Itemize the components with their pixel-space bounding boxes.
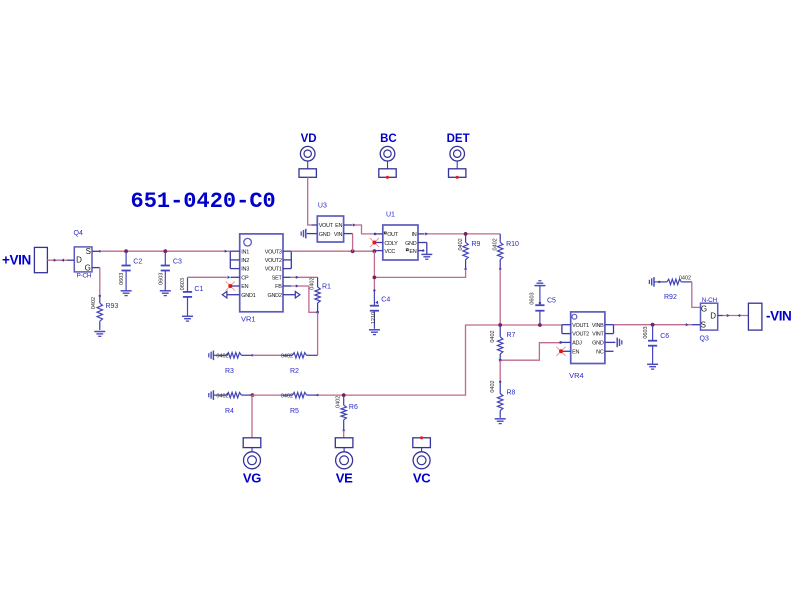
svg-text:0402: 0402 — [458, 238, 464, 250]
connector J +VIN — [34, 247, 47, 272]
svg-text:0402: 0402 — [281, 354, 293, 360]
resistor R7 — [490, 325, 516, 360]
svg-text:C1: C1 — [194, 286, 203, 293]
capacitor C5 — [530, 286, 556, 325]
svg-text:GND: GND — [319, 232, 331, 238]
transistor Q3 — [692, 297, 723, 342]
svg-text:GND1: GND1 — [241, 293, 255, 299]
svg-text:0402: 0402 — [336, 396, 342, 408]
svg-text:EN: EN — [572, 349, 579, 355]
ground below R93 — [94, 332, 105, 337]
svg-text:G: G — [85, 264, 91, 273]
capacitor C1 — [180, 277, 204, 321]
svg-text:0402: 0402 — [490, 330, 496, 342]
svg-text:IN: IN — [411, 232, 416, 238]
wire R7 to VR4 ADJ — [500, 343, 560, 361]
resistor R93 — [91, 295, 118, 330]
wire R3 to R2 — [252, 354, 282, 356]
junction C2 tap — [124, 249, 128, 253]
resistor R5 — [281, 392, 319, 414]
wire VR1 FB to R1 bottom — [291, 284, 317, 312]
resistor R2 — [281, 353, 318, 375]
wire R6 to VE — [343, 430, 345, 437]
svg-text:NC: NC — [596, 349, 604, 355]
svg-text:0603: 0603 — [530, 292, 536, 304]
op-amp U1 — [374, 212, 427, 261]
svg-text:D: D — [76, 256, 82, 265]
junction U3 VIN tap — [351, 249, 355, 253]
svg-text:0603: 0603 — [119, 273, 125, 285]
connector BC — [379, 133, 397, 179]
connector VD — [299, 133, 317, 177]
svg-text:R3: R3 — [225, 368, 234, 375]
svg-text:VOUT2: VOUT2 — [265, 258, 282, 264]
capacitor C2 — [119, 251, 142, 295]
transistor Q4 — [67, 230, 101, 279]
connector VE — [335, 438, 353, 486]
svg-text:VD: VD — [301, 133, 317, 145]
svg-text:C5: C5 — [547, 298, 556, 305]
svg-text:P-CH: P-CH — [77, 273, 92, 280]
wire Q4 G to R93 — [99, 268, 101, 296]
op-amp U3 — [307, 203, 353, 243]
svg-text:GND: GND — [592, 341, 604, 347]
svg-text:C3: C3 — [173, 258, 182, 265]
wire R7 to R8 — [499, 360, 501, 381]
junction C5 node — [538, 323, 542, 327]
port triangle at VR1 GND1 — [222, 291, 227, 298]
svg-text:-VIN: -VIN — [766, 309, 791, 324]
resistor R3 — [216, 353, 253, 375]
capacitor C4 — [370, 289, 391, 329]
svg-text:OUT: OUT — [387, 232, 399, 238]
svg-text:VOUT2: VOUT2 — [572, 332, 589, 338]
svg-text:VR1: VR1 — [241, 315, 256, 324]
svg-text:S: S — [701, 320, 706, 329]
svg-text:FB: FB — [275, 284, 282, 290]
ground left of R4 — [209, 390, 219, 400]
svg-text:BC: BC — [380, 133, 397, 145]
wire VR4 to Q3 S — [614, 323, 692, 326]
svg-text:U3: U3 — [318, 203, 327, 210]
junction R6 tap — [342, 393, 346, 397]
svg-text:0402: 0402 — [216, 354, 228, 360]
svg-text:ADJ: ADJ — [572, 341, 582, 347]
no-connect X on VR4 EN — [556, 347, 565, 356]
wire U1 IN to R10 — [424, 232, 500, 235]
svg-text:Q3: Q3 — [700, 335, 709, 342]
svg-text:0402: 0402 — [281, 393, 293, 399]
svg-text:EN: EN — [409, 249, 416, 255]
svg-text:SET: SET — [272, 275, 283, 281]
ground left of R92 — [649, 277, 659, 287]
svg-text:U1: U1 — [386, 212, 395, 219]
svg-text:DET: DET — [447, 133, 470, 145]
svg-text:VINT: VINT — [592, 332, 604, 338]
svg-text:VG: VG — [243, 470, 261, 485]
svg-text:Q4: Q4 — [74, 230, 83, 237]
svg-text:+VIN: +VIN — [2, 252, 31, 267]
svg-text:0402: 0402 — [490, 380, 496, 392]
svg-text:CP: CP — [241, 275, 249, 281]
resistor R4 — [216, 392, 252, 414]
wire +VIN to Q4 D — [47, 259, 67, 262]
ground right of VR4 GND — [617, 338, 622, 348]
svg-text:CDLY: CDLY — [384, 241, 398, 247]
svg-text:VR4: VR4 — [569, 371, 584, 380]
wire VR1 SET to R1 — [291, 276, 318, 279]
resistor R8 — [490, 380, 516, 417]
junction R1-FB — [316, 311, 319, 314]
capacitor C3 — [159, 251, 182, 295]
junction R7 node — [498, 323, 502, 327]
svg-text:651-0420-C0: 651-0420-C0 — [131, 189, 276, 214]
ground below C4 — [369, 330, 380, 335]
resistor R1 — [310, 277, 331, 312]
svg-text:0603: 0603 — [159, 273, 165, 285]
wire U3 EN to U1 OUT — [352, 223, 375, 234]
svg-text:IN3: IN3 — [241, 267, 249, 273]
svg-text:VCC: VCC — [384, 249, 395, 255]
svg-text:0402: 0402 — [310, 277, 316, 289]
svg-text:0402: 0402 — [91, 297, 97, 309]
label -VIN — [766, 309, 791, 324]
svg-text:EN: EN — [335, 223, 342, 229]
svg-text:0603: 0603 — [643, 326, 649, 338]
junction R8 node — [499, 359, 502, 362]
connector VC — [413, 436, 431, 485]
wire Q3 D to -VIN — [723, 314, 749, 317]
svg-text:VOUT1: VOUT1 — [572, 323, 589, 329]
svg-text:R6: R6 — [349, 404, 358, 411]
svg-text:C4: C4 — [381, 296, 390, 303]
wire VOUT rail — [291, 250, 376, 252]
ground below U1 GND — [421, 254, 432, 259]
wire R92 to Q3 G — [692, 282, 701, 308]
svg-text:R5: R5 — [290, 408, 299, 415]
port triangle at VR1 GND2 — [295, 291, 300, 298]
ground left of U3 GND — [301, 229, 306, 239]
label +VIN — [2, 252, 31, 267]
connector J -VIN — [748, 303, 762, 330]
wire R5 to riser — [318, 325, 562, 395]
svg-text:VOUT: VOUT — [319, 223, 334, 229]
connector DET — [447, 133, 470, 179]
capacitor C6 — [643, 325, 669, 369]
junction C6 tap — [651, 323, 655, 327]
wire R9 to VCC rail — [374, 269, 465, 277]
svg-text:VOUT3: VOUT3 — [265, 249, 282, 255]
svg-text:0603: 0603 — [180, 278, 186, 290]
svg-text:VOUT1: VOUT1 — [265, 267, 282, 273]
junction VCC tap — [373, 276, 377, 280]
svg-text:R4: R4 — [225, 408, 234, 415]
resistor R10 — [492, 234, 519, 270]
svg-text:N-CH: N-CH — [702, 297, 718, 304]
wire C1 to VR1 CP — [188, 276, 231, 279]
op-amp U VR1 regulator — [227, 234, 295, 324]
svg-text:VINB: VINB — [592, 323, 604, 329]
connector VG — [243, 438, 261, 486]
wire U3 VIN drop — [352, 234, 354, 252]
svg-text:S: S — [86, 247, 91, 256]
wire R1 to R2 — [317, 312, 319, 355]
wire VD drop — [308, 177, 312, 225]
svg-text:R10: R10 — [506, 241, 519, 248]
svg-text:R92: R92 — [664, 294, 677, 301]
svg-text:VC: VC — [413, 470, 431, 485]
svg-text:VIN: VIN — [334, 232, 343, 238]
wire R4 to R5 — [252, 394, 282, 396]
svg-text:R7: R7 — [507, 332, 516, 339]
wire C4 drop — [373, 251, 375, 290]
svg-text:D: D — [710, 311, 716, 320]
svg-text:C2: C2 — [133, 258, 142, 265]
svg-text:C6: C6 — [660, 333, 669, 340]
wire +VIN rail — [100, 250, 230, 253]
svg-text:IN2: IN2 — [241, 258, 249, 264]
svg-text:IN1: IN1 — [241, 249, 249, 255]
svg-text:1210: 1210 — [371, 312, 377, 324]
svg-text:EN: EN — [241, 284, 248, 290]
junction C4 tap — [373, 249, 377, 253]
svg-text:0402: 0402 — [679, 275, 691, 281]
svg-text:0402: 0402 — [492, 238, 498, 250]
op-amp VR4 regulator — [559, 312, 615, 380]
junction VG tap — [251, 393, 255, 397]
svg-text:R93: R93 — [106, 303, 119, 310]
wire VG drop — [251, 395, 253, 438]
wire R10 to node — [499, 269, 501, 325]
resistor R6 — [336, 395, 358, 431]
resistor R92 — [658, 275, 692, 301]
junction C3 tap — [163, 249, 167, 253]
no-connect X on U1 CDLY — [370, 238, 379, 247]
svg-text:R9: R9 — [472, 241, 481, 248]
resistor R9 — [458, 234, 481, 270]
svg-text:R8: R8 — [507, 390, 516, 397]
svg-text:R1: R1 — [322, 283, 331, 290]
ground left of R3 — [209, 351, 219, 361]
ground above C5 — [534, 281, 545, 286]
svg-text:G: G — [701, 304, 707, 313]
svg-text:R2: R2 — [290, 368, 299, 375]
svg-text:VE: VE — [336, 470, 353, 485]
svg-text:GND2: GND2 — [268, 293, 282, 299]
no-connect X on VR1 EN — [226, 281, 235, 290]
title 651-0420-C0 — [131, 189, 276, 214]
svg-text:GND: GND — [405, 241, 417, 247]
ground below R8 — [495, 419, 506, 424]
svg-text:0402: 0402 — [216, 393, 228, 399]
junction R9 tap — [464, 232, 468, 236]
